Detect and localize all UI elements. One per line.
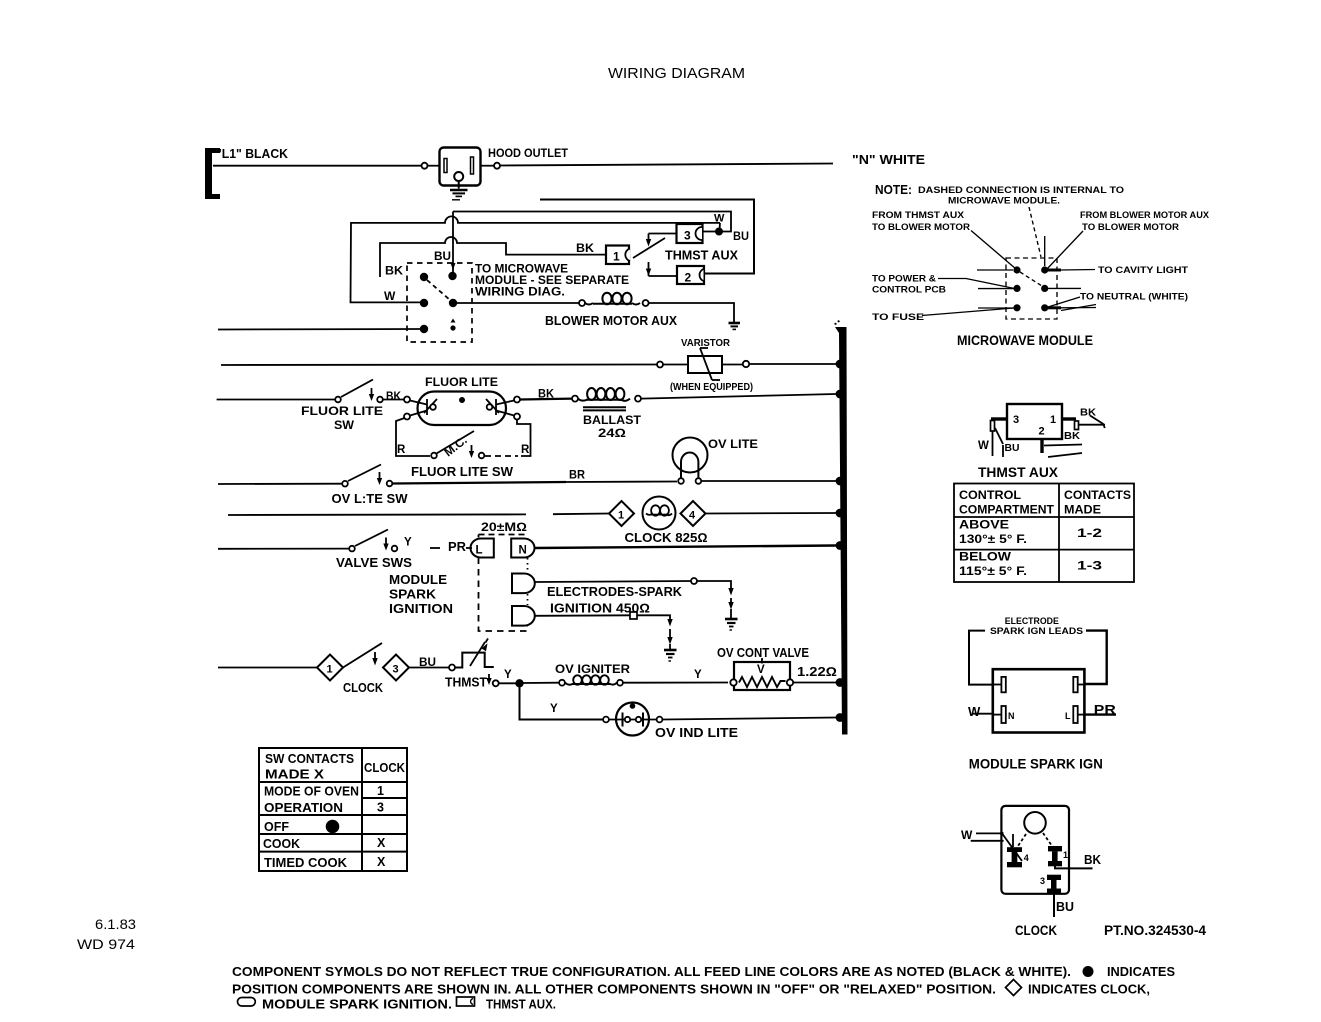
switch arm clock [343, 643, 382, 668]
terminal [449, 665, 455, 671]
clock contact diamond 4 [681, 501, 706, 526]
svg-text:COOK: COOK [263, 837, 300, 851]
svg-text:THMST AUX: THMST AUX [665, 249, 739, 263]
svg-text:BK: BK [576, 241, 594, 255]
terminal [643, 300, 649, 306]
wire dash to PR [430, 547, 440, 549]
leader from fuse label [922, 308, 1014, 316]
interlock switch dashed box [407, 263, 472, 342]
wire igniter to valve [623, 682, 728, 684]
wire clock825 row [228, 513, 526, 516]
svg-text:W: W [968, 704, 981, 719]
node bus varistor [836, 360, 845, 369]
note line 3 [238, 998, 256, 1007]
wire net W run to BU junction [453, 212, 731, 232]
svg-text:FLUOR LITE: FLUOR LITE [301, 404, 383, 418]
lamp FLUOR LITE tube [418, 392, 507, 426]
wire BR [393, 482, 567, 484]
svg-text:THMST AUX.: THMST AUX. [486, 998, 556, 1012]
svg-text:SW CONTACTS: SW CONTACTS [265, 752, 354, 766]
electrode output D1 [512, 574, 535, 594]
svg-text:SPARK: SPARK [389, 588, 436, 602]
wire ov lite to bus [702, 480, 837, 482]
resistor OV CONT VALVE [734, 662, 790, 690]
terminal tube bot-right [514, 414, 520, 420]
svg-text:L: L [1065, 711, 1071, 721]
svg-text:POSITION COMPONENTS ARE SHOW: POSITION COMPONENTS ARE SHOWN IN. ALL OT… [232, 983, 996, 997]
svg-text:Y: Y [404, 537, 412, 549]
svg-text:3: 3 [1013, 414, 1019, 426]
arrowhead on BU vertical [451, 263, 456, 270]
wire interlock bottom row to margin [218, 328, 420, 331]
wire N to bus [535, 546, 836, 549]
table SW CONTACTS MADE [259, 748, 407, 871]
svg-text:W: W [384, 289, 396, 303]
svg-text:1-2: 1-2 [1077, 526, 1102, 540]
wire [428, 165, 440, 167]
wire BK lead [1055, 866, 1093, 868]
svg-text:6.1.83: 6.1.83 [95, 917, 136, 932]
ground D1 [725, 618, 738, 621]
inductor ballast coil [578, 388, 630, 401]
node module BR [1041, 304, 1048, 311]
node bus ov lite [836, 477, 845, 486]
svg-text:MODE OF OVEN: MODE OF OVEN [264, 785, 359, 799]
svg-text:BU: BU [1056, 900, 1074, 914]
svg-text:BU: BU [733, 229, 749, 243]
svg-text:TO FUSE: TO FUSE [872, 312, 924, 323]
wire junction down to ind lite [520, 683, 604, 719]
svg-text:BK: BK [538, 389, 555, 401]
wire ov lite sw row [218, 483, 342, 485]
dashed bracket over L and N [479, 534, 528, 536]
svg-text:FLUOR LITE SW: FLUOR LITE SW [411, 465, 513, 479]
svg-text:OV IGNITER: OV IGNITER [555, 662, 630, 676]
terminal [494, 163, 500, 169]
ground at hood outlet [450, 189, 468, 192]
svg-text:OFF: OFF [264, 820, 289, 834]
wire dashed to R right [485, 455, 518, 457]
svg-text:CLOCK: CLOCK [1015, 923, 1057, 938]
relay contact box 2 [677, 266, 704, 284]
svg-text:Y: Y [504, 669, 512, 681]
svg-text:X: X [377, 855, 386, 869]
wire to bus [706, 512, 837, 515]
node module ML [1013, 285, 1020, 292]
node bus clock825 [836, 509, 845, 518]
wire ballast to bus [641, 394, 836, 399]
svg-text:WD 974: WD 974 [77, 937, 136, 952]
pin top-right [1078, 684, 1084, 686]
wire BU vertical [452, 212, 454, 273]
clock contact 4 [1007, 847, 1022, 867]
svg-text:CLOCK: CLOCK [364, 761, 405, 775]
wire W stub down to BU junction [719, 223, 722, 230]
svg-text:MODULE SPARK IGN: MODULE SPARK IGN [969, 757, 1103, 772]
motor clock 825 coil [643, 497, 676, 530]
svg-text:3: 3 [377, 801, 384, 815]
wire L1 to hood outlet [213, 165, 421, 167]
svg-text:NOTE:: NOTE: [875, 183, 912, 197]
wire clock row [218, 667, 317, 669]
svg-text:FROM THMST AUX: FROM THMST AUX [872, 210, 965, 221]
wire to box 3 [649, 233, 677, 235]
svg-text:130°± 5° F.: 130°± 5° F. [959, 532, 1027, 546]
svg-text:DASHED CONNECTION IS INTERNAL: DASHED CONNECTION IS INTERNAL TO [918, 185, 1124, 196]
switch FLUOR LITE SW (wall) [335, 397, 341, 403]
wire W leads [976, 832, 1001, 834]
svg-text:R: R [521, 444, 530, 456]
svg-text:TIMED COOK: TIMED COOK [264, 856, 347, 870]
thermostat THMST [455, 653, 494, 668]
svg-text:N: N [1008, 711, 1015, 721]
svg-text:TO CAVITY LIGHT: TO CAVITY LIGHT [1098, 265, 1188, 276]
svg-text:24Ω: 24Ω [598, 426, 626, 440]
svg-text:INDICATES CLOCK,: INDICATES CLOCK, [1028, 983, 1150, 997]
dashed link circle to contact 1 [1043, 833, 1052, 846]
svg-text:CONTROL PCB: CONTROL PCB [872, 285, 946, 296]
svg-text:CONTROL: CONTROL [959, 488, 1021, 502]
svg-text:MADE X: MADE X [265, 768, 325, 782]
svg-text:BU: BU [1005, 442, 1020, 454]
svg-text:BK: BK [385, 264, 403, 278]
svg-text:HOOD OUTLET: HOOD OUTLET [488, 146, 569, 160]
pin bottom-right L [1078, 714, 1084, 716]
module spark ign detail box [993, 669, 1085, 732]
svg-text:THMST: THMST [445, 676, 487, 690]
svg-text:BLOWER MOTOR AUX: BLOWER MOTOR AUX [545, 314, 678, 328]
clock contact 1 [1048, 846, 1062, 866]
wire D1 to ground [536, 581, 692, 582]
terminal [617, 680, 623, 686]
terminal [603, 717, 609, 723]
svg-text:N: N [519, 545, 527, 557]
inductor ov igniter coil [565, 675, 617, 684]
interlock dashed blade [427, 280, 450, 300]
wire electrode lead left [969, 631, 993, 685]
clock contact diamond 1 [317, 655, 343, 681]
thmst aux pin 2 stub [1040, 439, 1043, 453]
ballast core bars [583, 406, 626, 408]
dashed internal connection [1020, 272, 1042, 286]
wire electrode lead right [1084, 631, 1107, 684]
node BU junction [715, 228, 723, 236]
svg-text:2: 2 [685, 271, 692, 285]
table thmst aux contacts [954, 484, 1134, 583]
terminal [657, 717, 663, 723]
node module MR [1041, 285, 1048, 292]
relay contact box 3 [677, 224, 703, 243]
svg-text:1: 1 [618, 510, 624, 522]
svg-text:W: W [978, 440, 989, 452]
svg-text:OV CONT VALVE: OV CONT VALVE [717, 646, 809, 660]
svg-text:CONTACTS: CONTACTS [1064, 488, 1131, 502]
svg-text:MODULE SPARK IGNITION.: MODULE SPARK IGNITION. [262, 998, 452, 1012]
svg-text:BK: BK [1084, 853, 1101, 867]
svg-text:SPARK IGN LEADS: SPARK IGN LEADS [990, 626, 1083, 637]
module spark ignition terminal N [511, 539, 534, 558]
svg-text:MICROWAVE MODULE: MICROWAVE MODULE [957, 333, 1093, 348]
leader from blower aux label [1047, 231, 1083, 269]
thmst aux detail box [1007, 404, 1062, 439]
wire blower aux row from interlock [457, 302, 579, 304]
wire fluor lite sw row [217, 399, 335, 401]
node module TR [1041, 266, 1048, 273]
terminal tube top-right [514, 397, 520, 403]
dashed note leader [1029, 207, 1041, 257]
electrode output D2 [512, 606, 535, 626]
svg-text:X: X [377, 836, 386, 850]
varistor [688, 356, 722, 373]
wire net C with hop over BU vertical [351, 216, 721, 302]
svg-text:SW: SW [334, 418, 355, 432]
svg-text:"L1" BLACK: "L1" BLACK [216, 147, 288, 161]
bus bar N [835, 327, 848, 735]
svg-text:115°± 5° F.: 115°± 5° F. [959, 564, 1027, 578]
microwave module dashed box [922, 207, 1096, 319]
wire [663, 364, 687, 366]
pin bottom-left N [994, 714, 1001, 716]
svg-text:BK: BK [1080, 407, 1096, 419]
node bus ov ind lite [836, 713, 845, 722]
thmst aux right lead [1062, 417, 1076, 420]
wire ind lite to bus [663, 718, 837, 720]
hood outlet receptacle [440, 148, 481, 186]
svg-text:FLUOR LITE: FLUOR LITE [425, 375, 498, 389]
svg-text:BU: BU [434, 249, 451, 263]
svg-text:1: 1 [1063, 850, 1068, 860]
svg-text:V: V [757, 664, 765, 676]
ground D2 [664, 649, 677, 652]
leader from thmst aux label [971, 231, 1016, 270]
wire to box 2 [649, 275, 678, 277]
switch M.C. [431, 453, 437, 459]
terminal [657, 362, 663, 368]
svg-text:COMPARTMENT: COMPARTMENT [959, 503, 1055, 517]
svg-text:3: 3 [393, 664, 399, 676]
svg-text:BR: BR [569, 470, 586, 482]
svg-text:VALVE SWS: VALVE SWS [336, 556, 412, 570]
svg-text:TO NEUTRAL (WHITE): TO NEUTRAL (WHITE) [1080, 292, 1188, 303]
terminal [579, 300, 585, 306]
node interlock bot-left [420, 325, 428, 333]
wire BK run into relay box 1 [380, 237, 606, 277]
node bus ov cont valve [836, 678, 845, 687]
node bus fluor [836, 390, 845, 399]
svg-text:THMST AUX: THMST AUX [978, 465, 1058, 480]
node interlock top-left [420, 273, 428, 281]
svg-text:TO POWER &: TO POWER & [872, 274, 936, 285]
svg-text:1.22Ω: 1.22Ω [797, 665, 837, 679]
svg-text:FROM BLOWER MOTOR AUX: FROM BLOWER MOTOR AUX [1080, 210, 1210, 221]
dashed module spark ignition outline [479, 558, 528, 632]
svg-text:BELOW: BELOW [959, 550, 1012, 564]
svg-text:1: 1 [1050, 414, 1056, 426]
svg-text:4: 4 [689, 510, 696, 522]
terminal tube top-left [404, 397, 410, 403]
clock contact diamond 3 [383, 655, 409, 681]
svg-text:TO BLOWER MOTOR: TO BLOWER MOTOR [1082, 222, 1179, 233]
svg-text:20±MΩ: 20±MΩ [481, 520, 527, 534]
svg-text:BK: BK [1064, 430, 1080, 442]
node module TL [1013, 266, 1020, 273]
wire N feed [500, 164, 833, 166]
lamp OV LITE [673, 438, 708, 473]
module spark ignition terminal L [471, 539, 494, 558]
clock contact diamond 1 [609, 501, 634, 526]
wire junction to igniter [523, 682, 559, 684]
svg-text:MODULE: MODULE [389, 573, 447, 587]
svg-text:2: 2 [1039, 426, 1045, 438]
wire varistor to bus [723, 364, 743, 366]
svg-text:R: R [397, 444, 406, 456]
svg-text:CLOCK 825Ω: CLOCK 825Ω [625, 531, 708, 545]
svg-text:3: 3 [684, 229, 691, 243]
svg-text:BALLAST: BALLAST [583, 413, 642, 427]
svg-text:IGNITION: IGNITION [389, 602, 453, 616]
svg-text:INDICATES: INDICATES [1107, 965, 1175, 979]
electrode right [496, 401, 514, 405]
relay contact box 1 [606, 246, 629, 265]
svg-text:COMPONENT SYMOLS DO NOT REFLE: COMPONENT SYMOLS DO NOT REFLECT TRUE CON… [232, 965, 1071, 979]
node module BL [1013, 304, 1020, 311]
terminal [422, 163, 428, 169]
dash-dot D1 to D2 [527, 594, 529, 605]
thmst moving contact arrow [488, 674, 490, 679]
svg-text:ABOVE: ABOVE [959, 518, 1009, 532]
wire BU lead [1053, 894, 1055, 917]
node bus valve [836, 541, 845, 550]
svg-text:1: 1 [327, 664, 333, 676]
inductor blower motor aux coil [585, 293, 640, 305]
terminal [743, 361, 749, 367]
leader to cavity light [1046, 269, 1061, 272]
svg-text:BK: BK [386, 391, 402, 403]
svg-text:PT.NO.324530-4: PT.NO.324530-4 [1104, 923, 1206, 938]
wire valve sws row [218, 548, 349, 550]
svg-text:OV LITE: OV LITE [708, 437, 758, 451]
svg-text:1-3: 1-3 [1077, 559, 1102, 573]
switch arm from box 1 [633, 238, 665, 258]
thmst aux left lead [991, 417, 1007, 420]
svg-text:W: W [714, 213, 725, 225]
wire PR lead [1084, 713, 1116, 715]
switch VALVE SWS [349, 546, 355, 552]
svg-text:CLOCK: CLOCK [343, 681, 383, 695]
clock motor circle [1024, 812, 1046, 834]
wire vertical into module [1044, 236, 1046, 266]
svg-text:ELECTRODES-SPARK: ELECTRODES-SPARK [547, 585, 682, 599]
wire tube to ballast [520, 398, 572, 401]
svg-text:OV IND LITE: OV IND LITE [655, 726, 738, 740]
svg-text:OPERATION: OPERATION [264, 801, 343, 815]
wire R loop left [396, 418, 430, 456]
wire box 3 to BU junction [703, 231, 717, 233]
wire valve to bus [794, 682, 837, 684]
wire D2 to ground [536, 614, 631, 617]
svg-text:(WHEN EQUIPPED): (WHEN EQUIPPED) [670, 382, 753, 393]
node L1 black feed terminal [205, 148, 220, 199]
svg-text:WIRING DIAGRAM: WIRING DIAGRAM [608, 65, 745, 82]
svg-text:MADE: MADE [1064, 503, 1101, 517]
lamp OV IND LITE [616, 703, 649, 736]
ground blower aux [729, 322, 741, 325]
svg-text:OV L:TE SW: OV L:TE SW [332, 492, 408, 506]
wire to junction [499, 682, 516, 684]
wire W lead [972, 713, 993, 715]
svg-text:3: 3 [1040, 876, 1045, 886]
leader from neutral label [1048, 297, 1080, 307]
actuator arrow lower [648, 262, 650, 276]
leader from power pcb label [938, 279, 1014, 289]
node interlock top-right [448, 272, 456, 280]
dashed link circle to contact 4 [1016, 834, 1026, 849]
wire to ground [649, 303, 734, 322]
terminal [572, 396, 578, 402]
node interlock mid-right [449, 299, 457, 307]
terminal [635, 396, 641, 402]
actuator arrow upper [648, 234, 650, 241]
svg-text:PR: PR [448, 540, 466, 554]
svg-text:MICROWAVE MODULE.: MICROWAVE MODULE. [948, 196, 1060, 207]
leader BR right [1046, 306, 1061, 309]
wire R loop right [517, 420, 531, 457]
clock contact 3 [1047, 875, 1061, 894]
wire to tube [383, 399, 404, 401]
svg-text:1: 1 [377, 784, 384, 798]
pin top-left [994, 684, 1001, 686]
svg-text:TO BLOWER MOTOR: TO BLOWER MOTOR [872, 222, 970, 233]
wire net to box2 top run [540, 200, 754, 274]
svg-text:4: 4 [1024, 853, 1029, 863]
wire varistor row [221, 364, 657, 367]
terminal tube bot-left [404, 414, 410, 420]
svg-text:WIRING DIAG.: WIRING DIAG. [475, 285, 565, 299]
node interlock bot-right [450, 325, 455, 330]
wire into L module [466, 547, 472, 549]
svg-text:"N" WHITE: "N" WHITE [852, 153, 925, 167]
terminal [559, 680, 565, 686]
dash-dot N to D1 [527, 558, 529, 573]
leader to contact 4 [1002, 833, 1022, 861]
clock detail box [1001, 806, 1069, 894]
switch OV LITE SW [342, 481, 348, 487]
electrode left [410, 401, 427, 405]
svg-text:VARISTOR: VARISTOR [681, 338, 731, 349]
wire diamond3 to thmst [409, 667, 449, 669]
svg-text:1: 1 [613, 250, 620, 264]
svg-text:Y: Y [550, 703, 558, 715]
node junction Y [515, 679, 523, 687]
node interlock mid-left [420, 299, 428, 307]
leader from MR right [1048, 287, 1081, 289]
svg-text:Y: Y [694, 669, 702, 681]
svg-text:L: L [476, 545, 483, 557]
wire hood outlet to left [481, 165, 494, 167]
